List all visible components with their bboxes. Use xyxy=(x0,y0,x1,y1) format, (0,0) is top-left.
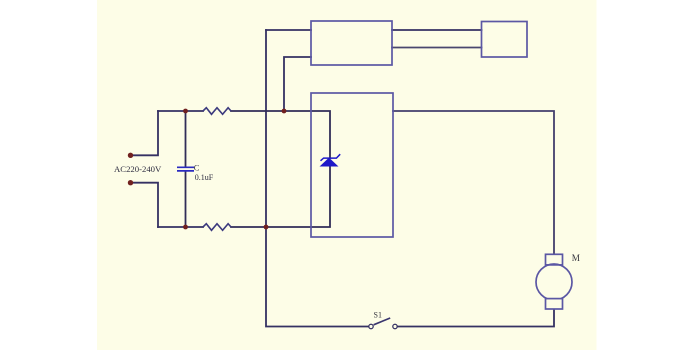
schematic background panel xyxy=(97,0,597,350)
wire: capacitor top lead xyxy=(185,111,187,167)
junction dot: top rail / pin2 drop xyxy=(282,109,287,114)
svg-text:AC220-240V: AC220-240V xyxy=(114,164,162,174)
block: middle control box xyxy=(311,93,393,237)
wire: top block to small block pin2 xyxy=(392,47,482,49)
junction dot: bottom rail / left vertical xyxy=(264,225,269,230)
junction dot: top rail / capacitor xyxy=(183,109,188,114)
block: small right box xyxy=(482,22,528,58)
resistor R1 (top rail zigzag) xyxy=(203,108,231,115)
terminal dot: AC top xyxy=(128,153,133,158)
wire: long left vertical down to switch row xyxy=(266,30,369,327)
motor M: top brush xyxy=(546,254,563,265)
wire: top block pin1 left to vertical xyxy=(266,29,311,31)
wire: top rail left segment xyxy=(158,110,203,112)
wire: AC top terminal stub and vertical xyxy=(131,111,159,155)
switch S1 right terminal xyxy=(393,324,397,328)
wire: motor bottom to switch right terminal xyxy=(397,309,554,327)
wire: capacitor bottom lead xyxy=(185,171,187,227)
svg-text:M: M xyxy=(572,253,580,263)
block: top component box (stator winding) xyxy=(311,21,392,65)
motor M: bottom brush xyxy=(546,299,563,309)
wire: top rail middle into control block, down to zener xyxy=(231,111,330,158)
wire: bottom rail left segment xyxy=(158,226,203,228)
terminal dot: AC bottom xyxy=(128,180,133,185)
wire: top block to small block pin1 xyxy=(392,29,482,31)
wire: AC bottom terminal stub and vertical xyxy=(131,183,159,227)
wire: control block right to motor top xyxy=(393,111,554,254)
motor M: rotor circle xyxy=(536,264,572,300)
switch S1 left terminal xyxy=(369,324,373,328)
svg-text:0.1uF: 0.1uF xyxy=(195,173,214,182)
wire: zener anode down, bottom rail back to resistor xyxy=(231,166,330,227)
wire: top block pin2 left, down to top rail junction xyxy=(284,57,311,111)
junction dot: bottom rail / capacitor xyxy=(183,225,188,230)
resistor R2 (bottom rail zigzag) xyxy=(203,224,231,231)
capacitor C plates xyxy=(177,167,194,171)
svg-text:S1: S1 xyxy=(374,311,382,320)
switch S1 blade xyxy=(374,318,391,325)
svg-text:C: C xyxy=(194,162,200,172)
zener diode D1 (inside control box) xyxy=(321,154,341,166)
